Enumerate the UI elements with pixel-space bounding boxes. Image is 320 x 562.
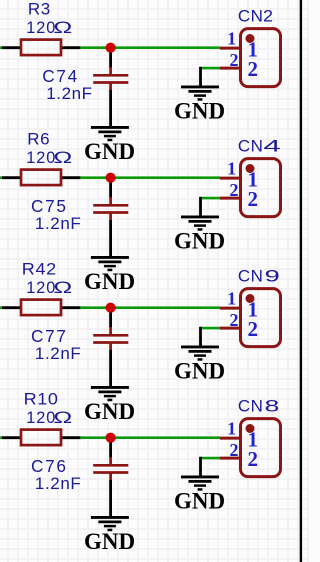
- ground (at CN9 pin 2): [181, 347, 219, 360]
- pin number 2 (inside CN4): [248, 187, 259, 211]
- label: reference C77: [31, 326, 68, 346]
- pin 2 of CN9: [220, 327, 240, 330]
- svg-text:1: 1: [227, 418, 236, 438]
- svg-text:CN: CN: [238, 396, 263, 415]
- wire: ground stem below CN2 pin 2: [199, 67, 202, 87]
- label: reference C75: [31, 196, 68, 216]
- svg-text:CN: CN: [238, 266, 263, 285]
- svg-text:2: 2: [248, 57, 259, 81]
- svg-text:2: 2: [248, 447, 259, 471]
- svg-text:2: 2: [230, 440, 239, 460]
- ground (at CN4 pin 2): [181, 217, 219, 230]
- pin 2 of CN8: [220, 457, 240, 460]
- wire: ground stem below CN9 pin 2: [199, 327, 202, 347]
- resistor R42 120&#937;: [2, 300, 81, 316]
- svg-text:2: 2: [248, 187, 259, 211]
- svg-text:4: 4: [263, 137, 280, 156]
- svg-text:GND: GND: [84, 399, 135, 424]
- connector CN9: [241, 289, 281, 347]
- svg-text:2: 2: [248, 317, 259, 341]
- label GND (at CN9 pin 2): [174, 358, 225, 383]
- label: value 1.2nF of C74: [46, 84, 92, 103]
- svg-text:1.2nF: 1.2nF: [35, 474, 81, 493]
- resistor R10 120&#937;: [2, 430, 81, 446]
- svg-text:CN: CN: [238, 6, 263, 25]
- svg-text:Ω: Ω: [53, 279, 72, 297]
- pin 1 of CN9: [220, 307, 240, 310]
- wire CN4 pin 2 to ground: [201, 197, 221, 200]
- capacitor C76 1.2nF: [93, 438, 128, 518]
- pin 2 of CN2: [220, 67, 240, 70]
- label GND (below C76): [84, 529, 135, 554]
- label: reference C76: [31, 456, 68, 476]
- svg-text:CN: CN: [238, 136, 263, 155]
- svg-text:1.2nF: 1.2nF: [35, 214, 81, 233]
- svg-text:Ω: Ω: [53, 149, 72, 167]
- pin number 2 (inside CN2): [248, 57, 259, 81]
- junction: node R42/C77/CN9.1: [106, 303, 116, 313]
- label: reference CN2: [238, 6, 273, 26]
- label: value 120&#937; of R10: [26, 409, 72, 428]
- svg-text:GND: GND: [84, 139, 135, 164]
- pin number 2 (inside CN9): [248, 317, 259, 341]
- wire: ground stem below CN8 pin 2: [199, 457, 202, 477]
- svg-text:8: 8: [265, 396, 280, 415]
- capacitor C75 1.2nF: [93, 178, 128, 258]
- wire: net stub at left edge into R10: [0, 436, 3, 439]
- label: reference R42: [22, 259, 57, 278]
- resistor R3 120&#937;: [2, 40, 81, 56]
- resistor R6 120&#937;: [2, 170, 81, 186]
- svg-text:R6: R6: [27, 129, 50, 148]
- wire R10 to CN8 pin 1: [80, 436, 220, 439]
- ground (below C76): [91, 517, 129, 530]
- wire CN2 pin 2 to ground: [201, 67, 221, 70]
- label GND (at CN2 pin 2): [174, 98, 225, 123]
- wire: net stub at left edge into R3: [0, 46, 3, 49]
- label: value 1.2nF of C77: [35, 344, 81, 363]
- wire R3 to CN2 pin 1: [80, 46, 220, 49]
- svg-text:2: 2: [230, 180, 239, 200]
- label: value 1.2nF of C75: [35, 214, 81, 233]
- svg-text:1.2nF: 1.2nF: [46, 84, 92, 103]
- pin number 1 (outside CN9): [227, 288, 236, 308]
- label: value 1.2nF of C76: [35, 474, 81, 493]
- svg-text:120: 120: [26, 279, 56, 297]
- label GND (at CN4 pin 2): [174, 228, 225, 253]
- wire: net stub at left edge into R42: [0, 306, 3, 309]
- pin number 1 (outside CN4): [227, 158, 236, 178]
- junction: node R3/C74/CN2.1: [106, 43, 116, 53]
- svg-text:1: 1: [227, 158, 236, 178]
- label GND (below C74): [84, 139, 135, 164]
- label: reference CN4: [238, 136, 281, 155]
- svg-text:120: 120: [26, 409, 56, 427]
- svg-text:Ω: Ω: [53, 409, 72, 427]
- svg-text:GND: GND: [84, 529, 135, 554]
- svg-text:1.2nF: 1.2nF: [35, 344, 81, 363]
- label: reference CN8: [238, 396, 279, 415]
- pin number 1 (outside CN8): [227, 418, 236, 438]
- pin number 1 (inside CN8): [247, 428, 258, 452]
- ground (below C77): [91, 387, 129, 400]
- label GND (below C77): [84, 399, 135, 424]
- pin number 2 (inside CN8): [248, 447, 259, 471]
- junction: node R10/C76/CN8.1: [106, 433, 116, 443]
- pin 1 of CN4: [220, 177, 240, 180]
- svg-text:R42: R42: [22, 259, 57, 278]
- svg-text:9: 9: [265, 266, 280, 285]
- pin number 2 (outside CN4): [230, 180, 239, 200]
- capacitor C74 1.2nF: [93, 48, 128, 128]
- wire R42 to CN9 pin 1: [80, 306, 220, 309]
- label: value 120&#937; of R42: [26, 279, 72, 298]
- ground (at CN8 pin 2): [181, 477, 219, 490]
- svg-text:GND: GND: [174, 98, 225, 123]
- wire CN8 pin 2 to ground: [201, 457, 221, 460]
- pin number 2 (outside CN9): [230, 310, 239, 330]
- junction: node R6/C75/CN4.1: [106, 173, 116, 183]
- label: reference CN9: [238, 266, 280, 286]
- pin number 1 (inside CN4): [247, 168, 258, 192]
- svg-text:120: 120: [26, 149, 56, 167]
- svg-text:1: 1: [227, 28, 236, 48]
- capacitor C77 1.2nF: [93, 308, 128, 388]
- label GND (below C75): [84, 269, 135, 294]
- pin number 1 (inside CN2): [247, 38, 258, 62]
- wire R6 to CN4 pin 1: [80, 176, 220, 179]
- label: value 120&#937; of R6: [26, 149, 72, 168]
- pin number 1 (outside CN2): [227, 28, 236, 48]
- wire: net stub at left edge into R6: [0, 176, 3, 179]
- label: value 120&#937; of R3: [26, 19, 72, 38]
- ground (below C74): [91, 127, 129, 140]
- label GND (at CN8 pin 2): [174, 488, 225, 513]
- svg-text:120: 120: [26, 19, 56, 37]
- wire: ground stem below CN4 pin 2: [199, 197, 202, 217]
- pin number 1 (inside CN9): [247, 298, 258, 322]
- connector CN8: [241, 419, 281, 477]
- svg-text:2: 2: [230, 310, 239, 330]
- pin number 2 (outside CN8): [230, 440, 239, 460]
- svg-text:R10: R10: [24, 389, 59, 408]
- svg-text:1: 1: [227, 288, 236, 308]
- connector CN4: [241, 159, 281, 217]
- svg-text:GND: GND: [174, 358, 225, 383]
- svg-text:GND: GND: [174, 228, 225, 253]
- label: reference R6: [27, 129, 50, 148]
- label: reference C74: [42, 66, 79, 86]
- ground (at CN2 pin 2): [181, 87, 219, 100]
- wire CN9 pin 2 to ground: [201, 327, 221, 330]
- svg-text:GND: GND: [174, 488, 225, 513]
- label: reference R10: [24, 389, 59, 408]
- ground (below C75): [91, 257, 129, 270]
- svg-text:2: 2: [263, 6, 273, 25]
- svg-text:Ω: Ω: [53, 19, 72, 37]
- svg-text:2: 2: [230, 50, 239, 70]
- svg-text:GND: GND: [84, 269, 135, 294]
- pin 1 of CN8: [220, 437, 240, 440]
- pin number 2 (outside CN2): [230, 50, 239, 70]
- label: reference R3: [28, 0, 51, 18]
- svg-text:R3: R3: [28, 0, 51, 18]
- pin 2 of CN4: [220, 197, 240, 200]
- pin 1 of CN2: [220, 47, 240, 50]
- connector CN2: [241, 29, 281, 87]
